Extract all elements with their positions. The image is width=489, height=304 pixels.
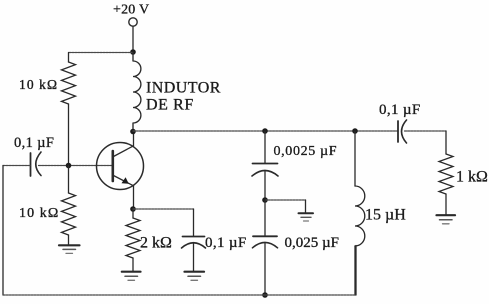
svg-text:0,0025 µF: 0,0025 µF — [274, 144, 338, 159]
inductor RF choke — [133, 52, 141, 132]
wire R1 to base node — [68, 104, 70, 166]
wire C3 to node C — [264, 171, 266, 201]
label 2 kOhm — [140, 235, 172, 252]
node A junction dot — [130, 49, 136, 55]
capacitor C4 curved plate — [253, 242, 278, 247]
wire bottom rail — [3, 246, 356, 296]
label 10 kOhm upper — [19, 77, 58, 92]
wire C2 to ground — [193, 244, 195, 272]
wire left edge to C1 — [3, 165, 31, 167]
label 0,025 uF — [285, 235, 340, 251]
resistor R4 1kohm — [439, 154, 453, 215]
svg-text:0,1 µF: 0,1 µF — [379, 102, 421, 118]
wire node C to C4 — [264, 200, 266, 236]
bottom node junction dot — [262, 292, 268, 298]
label 1 kOhm — [456, 169, 488, 186]
node D junction dot on rail — [352, 128, 358, 134]
node C junction dot — [262, 197, 268, 203]
transistor Q1 base bar — [112, 151, 115, 181]
label 15 uH — [365, 207, 406, 224]
wire C4 to bottom node — [264, 243, 266, 295]
transistor Q1 collector lead — [114, 132, 134, 157]
ground for C2 — [185, 272, 205, 281]
capacitor C1 0,1uF input, left plate — [30, 153, 32, 176]
ground for R2 — [59, 245, 80, 253]
svg-text:2 kΩ: 2 kΩ — [140, 235, 172, 252]
wire node B to C3 — [264, 131, 266, 163]
wire L2 to bottom wire — [354, 246, 356, 295]
svg-text:10 kΩ: 10 kΩ — [19, 77, 58, 92]
label 0,1 uF input — [14, 135, 54, 151]
capacitor C2 curved plate — [182, 243, 206, 248]
svg-text:DE RF: DE RF — [146, 97, 194, 114]
capacitor C2 0,1uF bypass top plate — [183, 236, 205, 238]
wire collector rail — [133, 130, 398, 132]
wire left feedback edge — [2, 166, 4, 296]
capacitor C3 0,0025uF top plate — [253, 163, 278, 165]
transistor Q1 circle — [97, 143, 144, 190]
ground for R4 — [437, 215, 456, 224]
label 10 kOhm lower — [19, 206, 59, 221]
capacitor C3 curved plate — [252, 171, 278, 177]
wire C5 to R4 corner — [405, 131, 447, 154]
resistor R1 10kohm — [62, 62, 76, 104]
wire emitter to bypass cap — [133, 209, 194, 236]
mid ground symbol — [299, 213, 314, 221]
svg-text:15 µH: 15 µH — [365, 207, 406, 224]
transistor Q1 emitter lead — [114, 176, 134, 210]
label INDUTOR DE RF — [146, 80, 221, 114]
svg-text:0,1 µF: 0,1 µF — [14, 135, 54, 151]
ground for R3 — [122, 272, 141, 281]
emitter node junction dot — [130, 206, 136, 212]
capacitor C5 0,1uF output left plate — [397, 121, 399, 142]
inductor L2 15uH — [355, 186, 365, 246]
wire node D to L2 — [354, 131, 356, 186]
transistor Q1 emitter arrow — [122, 177, 129, 184]
svg-text:1 kΩ: 1 kΩ — [456, 169, 488, 186]
svg-text:INDUTOR: INDUTOR — [146, 80, 221, 97]
capacitor C4 0,025uF top plate — [253, 235, 277, 237]
wire node C to mid ground — [265, 200, 306, 213]
svg-text:0,025 µF: 0,025 µF — [285, 235, 340, 251]
collector node junction dot — [130, 129, 136, 135]
capacitor C5 curved plate — [402, 120, 407, 143]
wire C1 to base — [39, 165, 113, 167]
resistor R2 10kohm lower — [62, 166, 76, 246]
base node junction dot — [66, 163, 72, 169]
label +20 V — [113, 3, 149, 18]
label 0,1 uF output — [379, 102, 421, 118]
wire node A to R1 — [69, 53, 134, 63]
label 0,1 uF bypass — [205, 235, 247, 251]
node B junction dot on rail — [262, 128, 268, 134]
svg-text:10 kΩ: 10 kΩ — [19, 206, 59, 221]
svg-text:+20 V: +20 V — [113, 3, 149, 18]
wire terminal to node A — [132, 26, 134, 52]
svg-text:0,1 µF: 0,1 µF — [205, 235, 247, 251]
label 0,0025 uF — [274, 144, 338, 159]
power terminal +20V — [129, 18, 137, 26]
capacitor C1 curved plate — [36, 152, 41, 176]
resistor R3 2kohm — [126, 209, 140, 271]
